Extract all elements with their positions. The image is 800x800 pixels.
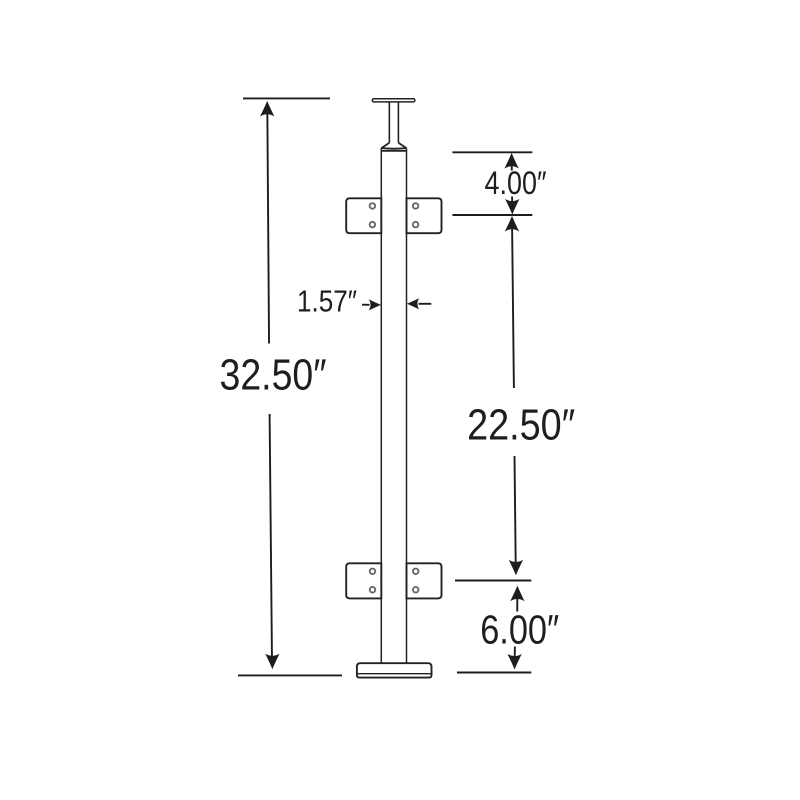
svg-text:6.00″: 6.00″ — [480, 606, 559, 652]
svg-text:22.50″: 22.50″ — [467, 402, 575, 450]
svg-text:1.57″: 1.57″ — [297, 284, 357, 319]
svg-text:4.00″: 4.00″ — [485, 165, 547, 201]
svg-text:32.50″: 32.50″ — [220, 351, 327, 399]
